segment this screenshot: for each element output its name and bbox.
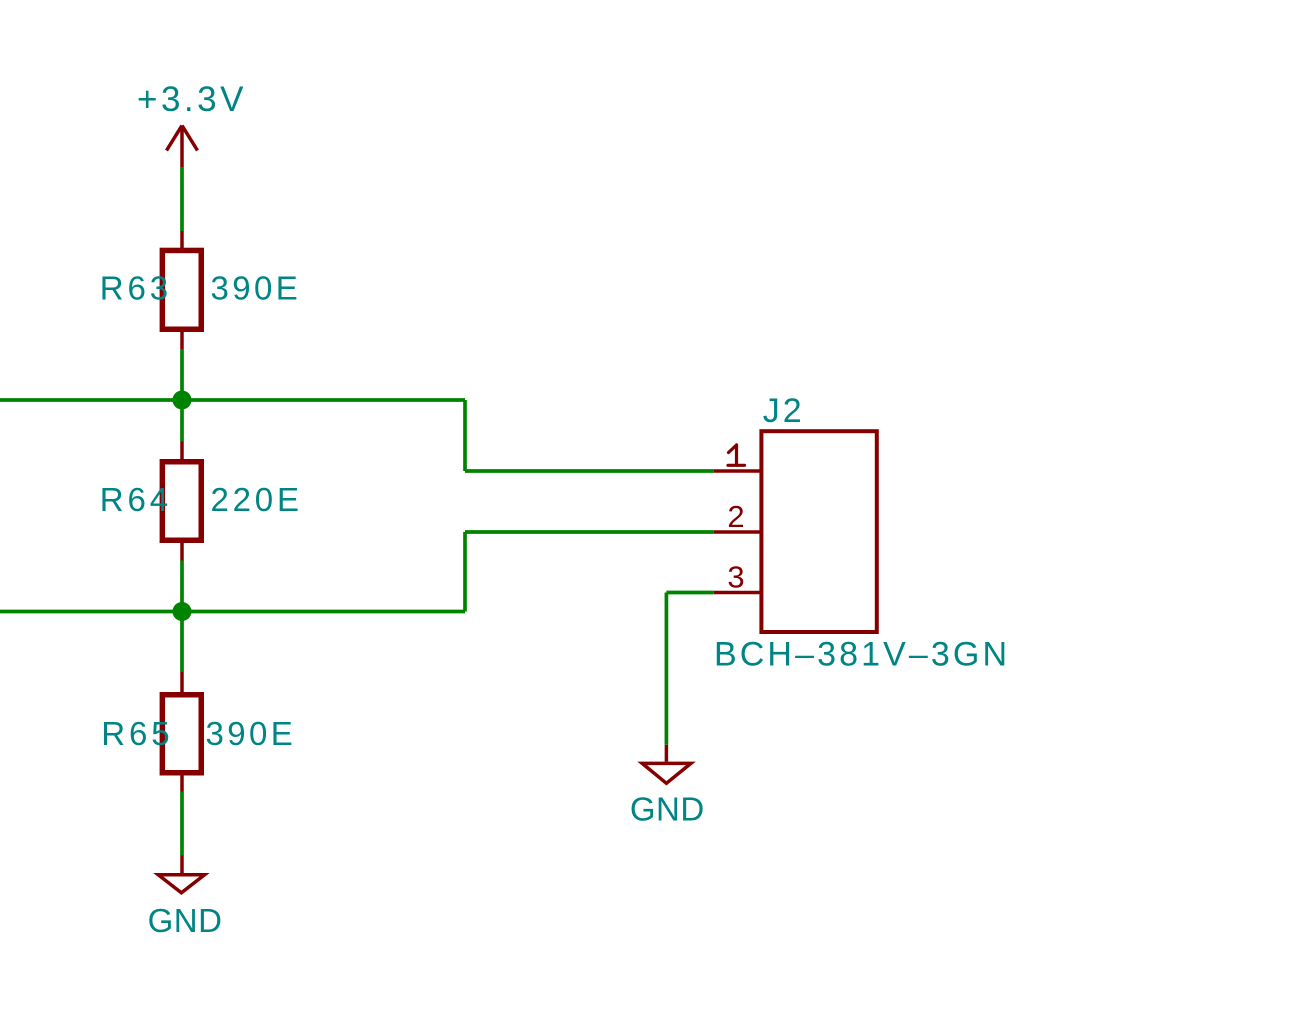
wire corner down to pin1 level (463, 400, 467, 471)
svg-text:390E: 390E (211, 270, 302, 307)
pin 1 of R64 (180, 442, 184, 460)
resistor R63 (162, 250, 201, 329)
resistor R65 (162, 695, 201, 773)
wire junction B to R65 (180, 612, 184, 673)
ground symbol (left) (158, 856, 204, 893)
pin number 1 (728, 445, 745, 465)
pin 1 stub of J2 (714, 469, 761, 473)
junction node B (173, 602, 192, 621)
wire pin 3 horizontal (666, 591, 713, 595)
ground symbol (right) (642, 745, 691, 784)
wire junction A to R64 (180, 400, 184, 442)
svg-text:+3.3V: +3.3V (137, 80, 247, 119)
svg-text:220E: 220E (211, 481, 303, 518)
pin 2 of R64 (180, 543, 184, 561)
wire R65 to GND (180, 792, 184, 856)
resistor R64 (162, 462, 201, 541)
wire pin 3 down to GND (665, 593, 669, 745)
wire corner up to pin2 level (463, 532, 467, 612)
wire R63 to junction A (180, 349, 184, 400)
svg-text:GND: GND (630, 791, 705, 828)
svg-text:GND: GND (148, 902, 223, 939)
wire to pin 1 of J2 (465, 469, 714, 473)
svg-text:2: 2 (727, 499, 744, 534)
wire node A to corner (182, 398, 465, 402)
svg-text:3: 3 (727, 560, 744, 595)
wire from +3.3V to R63 (180, 167, 184, 231)
wire R64 to junction B (180, 561, 184, 612)
pin 2 stub of J2 (714, 530, 761, 534)
power symbol +3.3V (167, 126, 198, 168)
wire left bus at node B (0, 610, 182, 614)
wire left bus at node A (0, 398, 182, 402)
svg-text:R64: R64 (100, 481, 172, 518)
svg-text:390E: 390E (206, 715, 297, 752)
pin 3 stub of J2 (714, 591, 761, 595)
wire node B to corner (182, 610, 465, 614)
svg-text:R65: R65 (101, 715, 173, 752)
pin 1 of R65 (180, 672, 184, 692)
svg-text:R63: R63 (100, 270, 172, 307)
pin 2 of R63 (180, 332, 184, 349)
pin 2 of R65 (180, 776, 184, 792)
svg-text:J2: J2 (763, 392, 805, 430)
svg-text:BCH–381V–3GN: BCH–381V–3GN (714, 636, 1010, 674)
connector J2 (761, 431, 876, 632)
pin 1 of R63 (180, 231, 184, 250)
wire to pin 2 of J2 (465, 530, 714, 534)
junction node A (173, 391, 192, 410)
